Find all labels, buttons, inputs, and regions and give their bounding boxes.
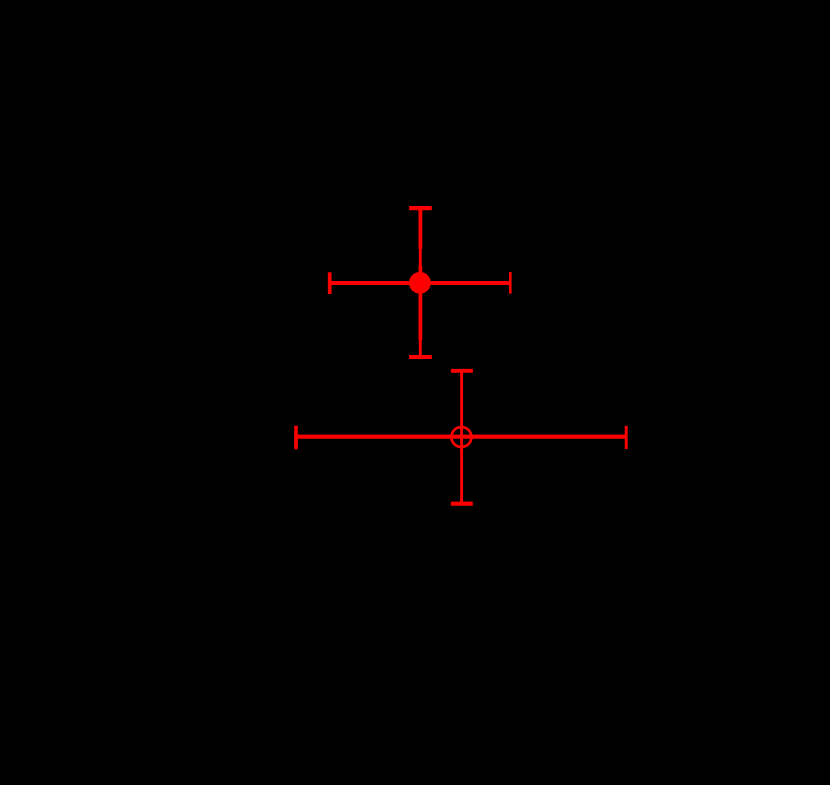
- data point P2 y-error bottom cap: [451, 502, 473, 506]
- data point P2 x-error bar line: [296, 435, 626, 439]
- data point P2 x-error left cap: [294, 426, 298, 450]
- data point P1 y-error bottom cap: [409, 355, 432, 359]
- data point P2 marker (open circle): [451, 427, 471, 447]
- data point P1 x-error right cap: [509, 272, 512, 294]
- data point P1 y-error bar line segment 4: [419, 340, 422, 358]
- data point P1 y-error bar line segment 2: [419, 249, 422, 267]
- data point P1 y-error bar line segment 3: [418, 266, 422, 340]
- data point P2 x-error right cap: [625, 426, 628, 449]
- data point P1 y-error top cap: [409, 206, 432, 210]
- data point P1 y-error bar line segment 1: [418, 208, 422, 249]
- data point P1 x-error left cap: [328, 272, 332, 294]
- data point P1 marker (filled circle): [409, 272, 431, 294]
- data point P2 y-error bar line: [460, 371, 463, 504]
- data point P2 y-error top cap: [451, 369, 473, 373]
- data point P1 x-error bar line: [330, 281, 511, 285]
